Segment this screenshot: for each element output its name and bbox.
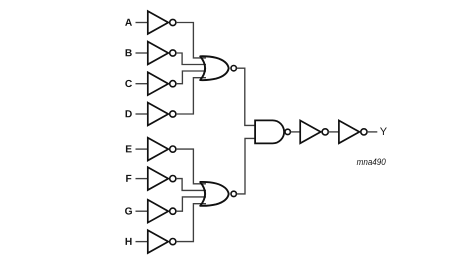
wire inverter 9 to inverter 10	[328, 131, 339, 133]
wire NAND to inverter 9	[291, 131, 301, 133]
wire inverter D to NOR1 input 4	[176, 78, 206, 114]
svg-text:D: D	[125, 109, 132, 120]
NOR gate 1 (inputs A-D)	[200, 56, 236, 80]
wire NOR2 to NAND input 2	[237, 138, 256, 194]
svg-text:mna490: mna490	[357, 157, 386, 167]
svg-text:C: C	[125, 79, 133, 90]
wire inverter F to NOR2 input 2	[176, 179, 206, 191]
wire NOR1 to NAND input 1	[237, 68, 256, 125]
svg-text:A: A	[125, 18, 133, 29]
inverter 9 (first output buffer)	[300, 120, 328, 143]
svg-text:E: E	[125, 144, 132, 155]
inverter 10 (second output buffer)	[339, 120, 367, 143]
NAND gate	[255, 120, 290, 143]
wire inverter C to NOR1 input 3	[176, 71, 206, 84]
inverter H	[148, 230, 176, 253]
inverter A	[148, 11, 176, 34]
wire F label to inverter	[136, 178, 149, 180]
inverter C	[148, 72, 176, 95]
inverter E	[148, 138, 176, 161]
wire inverter G to NOR2 input 3	[176, 197, 206, 211]
wire inverter H to NOR2 input 4	[176, 204, 206, 242]
wire B label to inverter	[136, 52, 149, 54]
inverter G	[148, 200, 176, 223]
svg-text:Y: Y	[380, 126, 388, 138]
wire inverter E to NOR2 input 1	[176, 149, 206, 184]
wire G label to inverter	[136, 210, 149, 212]
wire E label to inverter	[136, 148, 149, 150]
wire A label to inverter	[136, 22, 149, 24]
wire D label to inverter	[136, 113, 149, 115]
wire inverter 10 to output Y	[367, 131, 378, 133]
wire C label to inverter	[136, 83, 149, 85]
wire H label to inverter	[136, 241, 149, 243]
wire inverter A to NOR1 input 1	[176, 23, 206, 58]
svg-text:B: B	[125, 48, 132, 59]
inverter F	[148, 167, 176, 190]
inverter D	[148, 103, 176, 126]
svg-text:G: G	[125, 206, 133, 217]
svg-text:F: F	[125, 174, 131, 185]
wire inverter B to NOR1 input 2	[176, 53, 206, 65]
svg-text:H: H	[125, 237, 132, 248]
NOR gate 2 (inputs E-H)	[200, 182, 236, 206]
inverter B	[148, 42, 176, 65]
